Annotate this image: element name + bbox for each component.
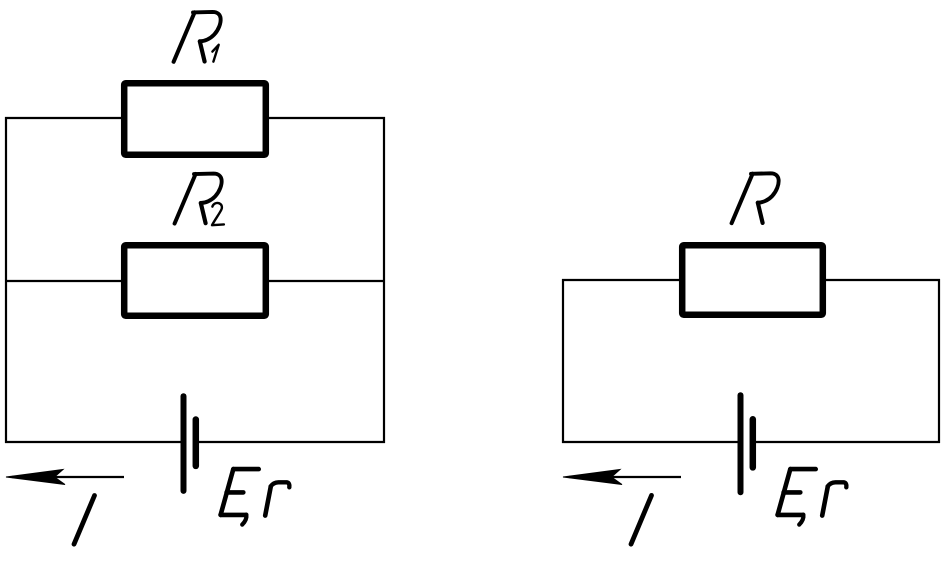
wire: top branch right segment from R1 bbox=[266, 117, 385, 119]
label I (right) bbox=[631, 495, 652, 544]
wire: right circuit left vertical rail bbox=[562, 279, 564, 443]
wire: right circuit top rail left of R bbox=[562, 279, 682, 281]
battery E,r (left): short plate bbox=[193, 420, 200, 466]
resistor R1 bbox=[124, 83, 266, 155]
wire: right circuit bottom rail left of battery bbox=[562, 441, 739, 443]
wire: middle branch left segment to R2 bbox=[5, 280, 124, 282]
wire: right circuit top rail right of R bbox=[823, 279, 940, 281]
label E,r (left) bbox=[221, 469, 290, 524]
battery E,r (right): long plate bbox=[738, 395, 744, 492]
wire: right circuit bottom rail right of battery bbox=[754, 441, 940, 443]
current arrow I (right) bbox=[563, 470, 681, 485]
wire: left circuit left vertical rail bbox=[5, 117, 7, 443]
wire: left circuit bottom rail right of battery bbox=[197, 441, 385, 443]
label R2 bbox=[175, 174, 224, 226]
resistor R2 bbox=[124, 245, 266, 316]
label R1 bbox=[174, 12, 221, 62]
resistor R bbox=[682, 245, 823, 315]
wire: right circuit right vertical rail bbox=[938, 279, 940, 443]
label R bbox=[732, 173, 779, 223]
current arrow I (left) bbox=[6, 470, 124, 485]
battery E,r (left): long plate bbox=[181, 396, 187, 491]
wire: top branch left segment to R1 bbox=[5, 117, 124, 119]
wire: left circuit right vertical rail bbox=[383, 117, 385, 443]
label E,r (right) bbox=[778, 469, 847, 524]
battery E,r (right): short plate bbox=[750, 419, 757, 467]
label I (left) bbox=[74, 496, 95, 545]
wire: middle branch right segment from R2 bbox=[266, 280, 385, 282]
wire: left circuit bottom rail left of battery bbox=[5, 441, 182, 443]
